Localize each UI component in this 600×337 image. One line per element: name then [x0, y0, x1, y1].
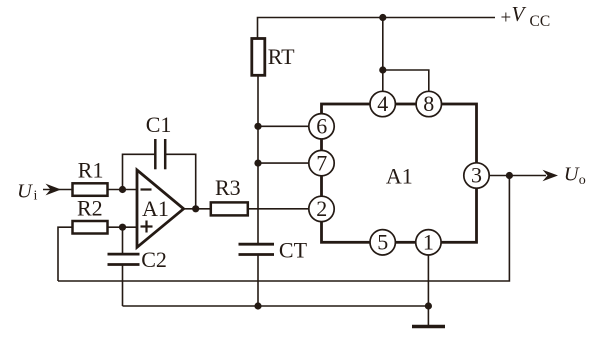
wire Vcc rail: [258, 18, 496, 39]
svg-text:7: 7: [316, 150, 327, 175]
capacitor CT: [239, 244, 275, 254]
op-amp A1: [137, 170, 184, 247]
svg-text:RT: RT: [268, 44, 295, 69]
svg-text:CC: CC: [530, 13, 551, 30]
pin 1: [416, 230, 441, 256]
ground: [412, 325, 445, 328]
wire C1 left leg: [123, 154, 156, 189]
svg-text:3: 3: [471, 163, 482, 188]
pin 6: [309, 114, 334, 140]
svg-text:V: V: [512, 2, 527, 26]
svg-text:CT: CT: [279, 238, 308, 263]
svg-text:8: 8: [423, 91, 434, 116]
svg-text:C2: C2: [141, 247, 167, 272]
op-amp plus sign: [141, 221, 153, 233]
wire pin1 to ground: [427, 255, 429, 326]
pin 3: [464, 163, 489, 189]
node output junction: [506, 172, 513, 179]
capacitor C1: [155, 139, 165, 169]
op-amp minus sign: [141, 188, 152, 190]
node Vcc-rail junction: [379, 14, 386, 21]
wire pin4 supply drop: [382, 18, 384, 92]
svg-text:C1: C1: [146, 112, 172, 137]
node pin7 tap: [254, 160, 261, 167]
wire CT to ground rail: [257, 255, 259, 307]
wire feedback bottom: [58, 176, 509, 282]
pin 4: [370, 91, 395, 117]
wire pin8 branch: [383, 70, 429, 91]
wire RT to CT vertical: [257, 75, 259, 244]
pin 2: [309, 196, 334, 221]
wire opamp output to R3: [184, 208, 211, 210]
wire R3 to pin 2: [248, 208, 309, 210]
resistor R3: [211, 202, 248, 215]
svg-text:1: 1: [423, 230, 434, 255]
svg-text:A1: A1: [386, 164, 413, 189]
input arrowhead: [46, 184, 62, 196]
wire C2 bottom leg: [122, 265, 124, 307]
node inverting input: [119, 186, 126, 193]
svg-text:+: +: [501, 8, 512, 29]
svg-text:R1: R1: [78, 158, 104, 183]
node pin4/pin8 branch: [379, 66, 386, 73]
svg-text:i: i: [34, 189, 38, 204]
wire ground rail: [123, 305, 429, 307]
svg-text:o: o: [579, 173, 586, 188]
wire C2 top leg: [122, 227, 124, 254]
wire R1 to opamp: [108, 189, 138, 191]
svg-text:2: 2: [316, 196, 327, 221]
wire R2 left to feedback: [58, 227, 73, 281]
resistor RT: [252, 39, 265, 76]
wire to pin 7: [258, 162, 309, 164]
svg-text:R3: R3: [215, 175, 241, 200]
node op-amp output: [192, 205, 199, 212]
wire pin3 output: [489, 175, 546, 177]
IC A1 outline: [322, 104, 477, 242]
capacitor C2: [108, 254, 140, 264]
svg-text:R2: R2: [77, 196, 103, 221]
output arrowhead: [543, 170, 559, 182]
svg-text:U: U: [564, 164, 580, 186]
resistor R1: [73, 183, 108, 196]
node pin6 tap: [254, 123, 261, 130]
svg-text:6: 6: [316, 114, 327, 139]
svg-text:5: 5: [377, 230, 388, 255]
pin 5: [370, 230, 395, 256]
wire C1 right leg: [165, 154, 196, 209]
wire to pin 6: [258, 125, 309, 127]
node ground junction: [425, 302, 432, 309]
node noninverting input: [119, 224, 126, 231]
svg-text:U: U: [17, 181, 33, 203]
wire R2 to opamp: [108, 226, 138, 228]
svg-text:A1: A1: [142, 196, 169, 221]
wire input arrow line: [43, 189, 73, 191]
pin 8: [416, 91, 441, 117]
pin 7: [309, 150, 334, 176]
resistor R2: [73, 221, 108, 234]
node CT-ground junction: [254, 302, 261, 309]
svg-text:4: 4: [377, 91, 388, 116]
